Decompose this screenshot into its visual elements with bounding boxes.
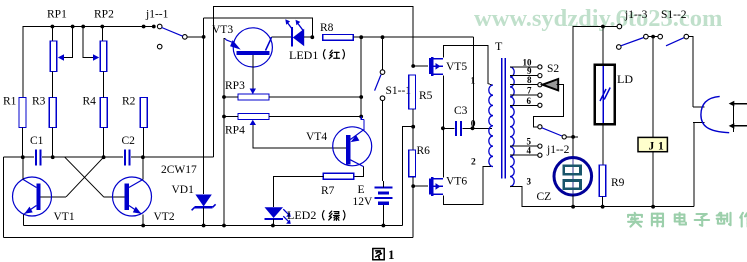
svg-text:RP3: RP3: [225, 80, 245, 92]
svg-text:R3: R3: [32, 95, 46, 107]
svg-text:C2: C2: [122, 135, 136, 147]
svg-text:2CW17: 2CW17: [161, 164, 197, 176]
svg-text:RP2: RP2: [94, 9, 114, 21]
svg-text:R6: R6: [417, 145, 431, 157]
svg-text:VD1: VD1: [172, 184, 195, 196]
svg-text:VT1: VT1: [54, 211, 75, 223]
svg-text:VT4: VT4: [306, 131, 327, 143]
svg-text:j1--2: j1--2: [546, 144, 570, 156]
svg-text:3: 3: [527, 177, 532, 187]
svg-text:0: 0: [471, 119, 476, 129]
svg-text:J: J: [649, 140, 655, 152]
svg-text:S1--1: S1--1: [386, 85, 412, 97]
svg-text:T: T: [495, 39, 503, 53]
svg-text:LD: LD: [617, 72, 633, 86]
svg-text:8: 8: [527, 75, 532, 85]
svg-text:7: 7: [527, 86, 532, 96]
svg-text:1: 1: [658, 140, 664, 152]
svg-text:S2: S2: [547, 63, 559, 75]
svg-text:12V: 12V: [353, 196, 374, 208]
svg-text:VT3: VT3: [212, 24, 233, 36]
svg-text:RP4: RP4: [225, 125, 245, 137]
svg-text:LED2: LED2: [287, 208, 316, 222]
svg-text:6: 6: [527, 96, 532, 106]
svg-text:CZ: CZ: [537, 191, 552, 203]
svg-text:VT5: VT5: [446, 61, 467, 73]
svg-text:j1--3: j1--3: [624, 9, 648, 21]
svg-text:R8: R8: [320, 22, 334, 34]
svg-text:1: 1: [388, 247, 395, 262]
svg-text:4: 4: [527, 146, 532, 156]
svg-text:VT2: VT2: [154, 211, 175, 223]
svg-text:C3: C3: [454, 105, 468, 117]
svg-text:S1--2: S1--2: [661, 9, 687, 21]
svg-text:R7: R7: [321, 185, 335, 197]
svg-text:LED1: LED1: [289, 48, 318, 62]
svg-text:R4: R4: [83, 95, 97, 107]
svg-text:RP1: RP1: [47, 9, 67, 21]
svg-text:E: E: [358, 184, 365, 196]
svg-text:VT6: VT6: [446, 176, 467, 188]
svg-text:R9: R9: [611, 177, 625, 189]
svg-text:j1--1: j1--1: [145, 9, 169, 21]
svg-text:R2: R2: [122, 95, 136, 107]
svg-text:C1: C1: [30, 135, 44, 147]
svg-text:1: 1: [471, 77, 476, 87]
svg-text:2: 2: [471, 158, 476, 168]
svg-text:R5: R5: [419, 90, 433, 102]
svg-text:R1: R1: [3, 95, 17, 107]
